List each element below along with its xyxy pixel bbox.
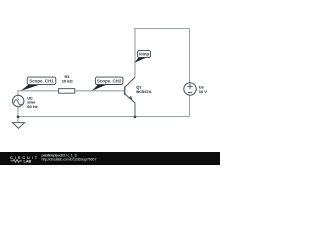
svg-text:10 V: 10 V <box>199 89 208 94</box>
svg-text:temp: temp <box>139 52 150 57</box>
svg-text:Scope_CH2: Scope_CH2 <box>97 78 122 83</box>
svg-text:60 Hz: 60 Hz <box>27 104 37 109</box>
svg-text:BC547A: BC547A <box>136 89 151 94</box>
svg-text:Scope_CH1: Scope_CH1 <box>29 78 54 83</box>
svg-text:http;//circuitlab.com/c/12362e: http;//circuitlab.com/c/12362eg/76657 <box>42 157 97 161</box>
svg-text:10 kΩ: 10 kΩ <box>62 79 74 84</box>
svg-text:LAB: LAB <box>24 159 32 163</box>
